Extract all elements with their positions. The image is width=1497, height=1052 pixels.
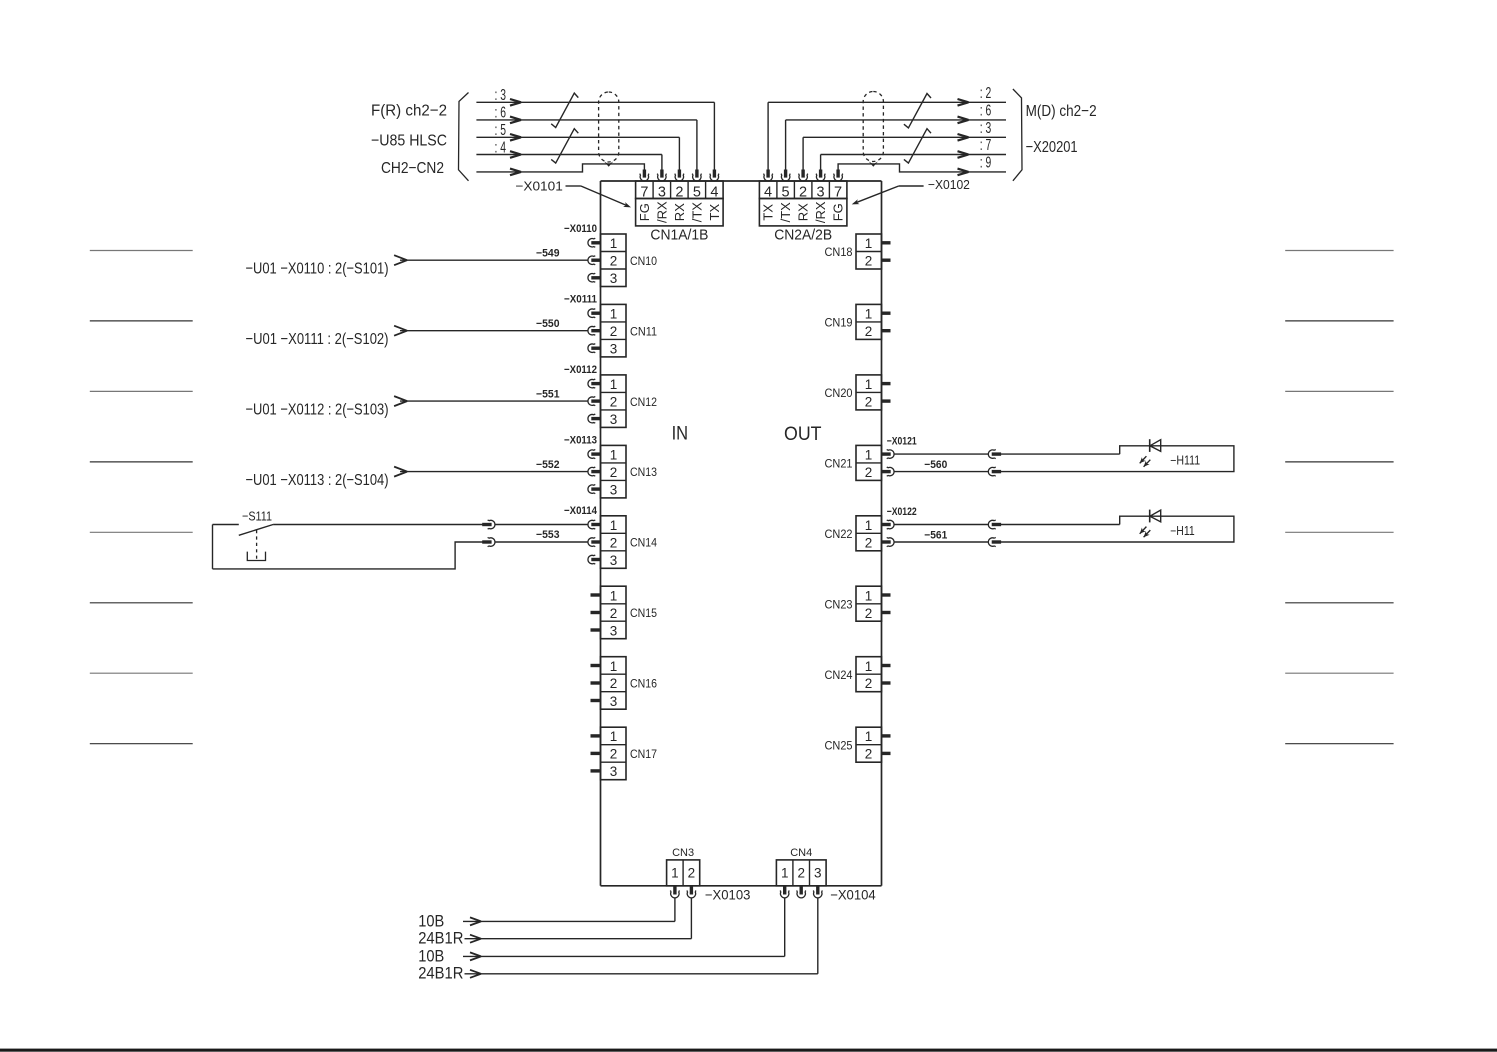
svg-text:CN24: CN24 — [825, 670, 854, 682]
svg-text:TX: TX — [707, 204, 722, 221]
svg-text:CN16: CN16 — [630, 679, 657, 691]
svg-text:CN15: CN15 — [630, 608, 657, 620]
svg-text:TX: TX — [761, 204, 776, 221]
svg-text:2: 2 — [610, 676, 618, 691]
svg-text:−X0110: −X0110 — [564, 223, 597, 235]
svg-text:7: 7 — [834, 184, 842, 200]
svg-text:−X0112: −X0112 — [564, 364, 597, 376]
svg-text:CN3: CN3 — [672, 847, 694, 859]
svg-text:1: 1 — [610, 236, 618, 251]
svg-text:CN1A/1B: CN1A/1B — [650, 228, 708, 244]
svg-text:2: 2 — [865, 394, 873, 409]
svg-text:/RX: /RX — [654, 201, 669, 223]
svg-text:2: 2 — [675, 184, 683, 200]
svg-text:−X0102: −X0102 — [928, 177, 970, 192]
svg-text:1: 1 — [865, 659, 873, 674]
svg-text:7: 7 — [640, 184, 648, 200]
svg-text:−552: −552 — [536, 459, 560, 471]
svg-text:1: 1 — [610, 659, 618, 674]
svg-text:3: 3 — [658, 184, 666, 200]
svg-text:2: 2 — [610, 606, 618, 621]
svg-text:3: 3 — [610, 694, 618, 709]
svg-text:3: 3 — [814, 866, 822, 881]
svg-text:/TX: /TX — [689, 202, 704, 223]
svg-text:2: 2 — [865, 535, 873, 550]
svg-text:2: 2 — [610, 465, 618, 480]
svg-text:F(R) ch2−2: F(R) ch2−2 — [371, 103, 447, 120]
svg-text:1: 1 — [865, 729, 873, 744]
svg-text:CN20: CN20 — [825, 388, 853, 400]
svg-text:−553: −553 — [536, 529, 560, 541]
svg-text:: 5: : 5 — [495, 122, 507, 139]
svg-text:3: 3 — [610, 412, 618, 427]
svg-text:3: 3 — [610, 482, 618, 497]
svg-text:−S111: −S111 — [242, 509, 272, 524]
svg-text:2: 2 — [865, 606, 873, 621]
svg-text:3: 3 — [610, 764, 618, 779]
svg-text:−X0114: −X0114 — [564, 505, 598, 517]
svg-text:−X0101: −X0101 — [515, 179, 562, 194]
svg-text:RX: RX — [672, 203, 687, 221]
svg-text:OUT: OUT — [784, 424, 822, 445]
svg-text:−U01 −X0111 : 2(−S102): −U01 −X0111 : 2(−S102) — [246, 331, 389, 348]
svg-text:RX: RX — [796, 203, 811, 221]
svg-text:: 2: : 2 — [980, 85, 992, 102]
svg-text:−X0113: −X0113 — [564, 435, 597, 447]
svg-text:1: 1 — [610, 307, 618, 322]
svg-text:4: 4 — [710, 184, 718, 200]
svg-text:−U85 HLSC: −U85 HLSC — [371, 133, 447, 150]
svg-text:2: 2 — [797, 866, 805, 881]
svg-text:1: 1 — [865, 307, 873, 322]
svg-text:10B: 10B — [418, 946, 444, 965]
svg-text:2: 2 — [865, 324, 873, 339]
svg-text:FG: FG — [637, 203, 652, 221]
svg-text:2: 2 — [865, 676, 873, 691]
svg-text:/TX: /TX — [778, 202, 793, 223]
svg-text:3: 3 — [610, 271, 618, 286]
svg-text:3: 3 — [610, 342, 618, 357]
svg-text:: 4: : 4 — [495, 139, 507, 156]
svg-text:IN: IN — [672, 423, 689, 444]
svg-text:1: 1 — [865, 236, 873, 251]
svg-text:−X0122: −X0122 — [887, 506, 917, 518]
svg-text:2: 2 — [865, 254, 873, 269]
svg-text:CN2A/2B: CN2A/2B — [774, 228, 832, 244]
svg-text:1: 1 — [671, 866, 679, 881]
svg-text:−X0103: −X0103 — [705, 886, 751, 902]
svg-text:−551: −551 — [536, 388, 560, 400]
svg-text:1: 1 — [865, 377, 873, 392]
svg-text:−H11: −H11 — [1170, 524, 1195, 538]
svg-text:CN22: CN22 — [825, 529, 853, 541]
svg-text:FG: FG — [831, 203, 846, 221]
svg-text:2: 2 — [865, 465, 873, 480]
svg-text:4: 4 — [764, 184, 772, 200]
svg-text:2: 2 — [865, 747, 873, 762]
svg-text:CN25: CN25 — [825, 740, 853, 752]
svg-text:CN21: CN21 — [825, 459, 853, 471]
svg-text:−550: −550 — [536, 318, 560, 330]
svg-text:5: 5 — [782, 184, 790, 200]
svg-text:2: 2 — [610, 535, 618, 550]
svg-text:: 6: : 6 — [495, 105, 507, 122]
svg-text:/RX: /RX — [813, 201, 828, 223]
svg-text:−X0121: −X0121 — [887, 436, 917, 448]
svg-text:3: 3 — [610, 623, 618, 638]
svg-text:24B1R: 24B1R — [418, 964, 463, 983]
svg-text:2: 2 — [799, 184, 807, 200]
svg-text:1: 1 — [865, 518, 873, 533]
svg-text:−U01 −X0110 : 2(−S101): −U01 −X0110 : 2(−S101) — [246, 260, 389, 277]
svg-text:CN19: CN19 — [825, 318, 853, 330]
svg-text:CN12: CN12 — [630, 397, 657, 409]
svg-text:−549: −549 — [536, 247, 560, 259]
svg-text:10B: 10B — [418, 911, 444, 930]
svg-text:: 9: : 9 — [980, 155, 992, 172]
svg-text:M(D) ch2−2: M(D) ch2−2 — [1026, 103, 1097, 120]
svg-text:−X0111: −X0111 — [564, 294, 597, 306]
svg-text:1: 1 — [610, 518, 618, 533]
svg-text:3: 3 — [610, 553, 618, 568]
svg-text:2: 2 — [688, 866, 696, 881]
svg-text:CN17: CN17 — [630, 749, 657, 761]
svg-text:−561: −561 — [924, 530, 947, 542]
svg-text:CN13: CN13 — [630, 467, 657, 479]
svg-text:CN11: CN11 — [630, 326, 657, 338]
svg-text:CN4: CN4 — [790, 847, 812, 859]
svg-text:: 3: : 3 — [495, 87, 507, 104]
svg-text:1: 1 — [865, 588, 873, 603]
svg-text:2: 2 — [610, 394, 618, 409]
svg-text:1: 1 — [610, 729, 618, 744]
svg-text:CH2−CN2: CH2−CN2 — [381, 160, 444, 177]
svg-text:CN14: CN14 — [630, 538, 658, 550]
svg-text:2: 2 — [610, 324, 618, 339]
svg-text:CN18: CN18 — [825, 247, 853, 259]
svg-text:2: 2 — [610, 254, 618, 269]
svg-text:3: 3 — [817, 184, 825, 200]
svg-text:2: 2 — [610, 747, 618, 762]
svg-text:24B1R: 24B1R — [418, 929, 463, 948]
svg-text:CN23: CN23 — [825, 599, 853, 611]
svg-text:−X0104: −X0104 — [830, 886, 876, 902]
svg-text:−U01 −X0113 : 2(−S104): −U01 −X0113 : 2(−S104) — [246, 472, 389, 489]
svg-text:: 7: : 7 — [980, 137, 992, 154]
svg-text:1: 1 — [865, 447, 873, 462]
svg-text:1: 1 — [610, 588, 618, 603]
svg-text:5: 5 — [693, 184, 701, 200]
svg-text:−U01 −X0112 : 2(−S103): −U01 −X0112 : 2(−S103) — [246, 401, 389, 418]
svg-text:−H111: −H111 — [1170, 454, 1200, 468]
svg-text:−X20201: −X20201 — [1026, 139, 1078, 156]
svg-text:: 3: : 3 — [980, 120, 992, 137]
svg-text:−560: −560 — [924, 459, 947, 471]
svg-text:CN10: CN10 — [630, 256, 657, 268]
svg-text:1: 1 — [781, 866, 789, 881]
svg-text:1: 1 — [610, 447, 618, 462]
svg-text:1: 1 — [610, 377, 618, 392]
svg-text:: 6: : 6 — [980, 103, 992, 120]
